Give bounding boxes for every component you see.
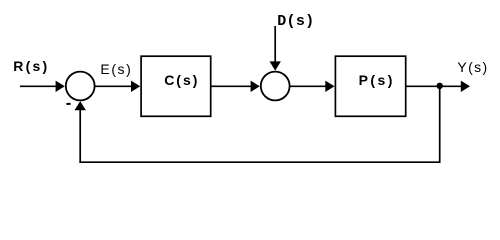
- wire feedback up to S1: [79, 110, 81, 164]
- svg-text:E(s): E(s): [100, 61, 130, 77]
- svg-text:D(s): D(s): [277, 13, 314, 30]
- block P(s) plant: [335, 56, 405, 116]
- wire D(s) down to S2: [274, 26, 276, 62]
- svg-text:C(s): C(s): [164, 72, 197, 88]
- arrowhead into P(s): [325, 81, 334, 92]
- block C(s) controller: [141, 56, 211, 116]
- wire S1 to C(s) block: [95, 85, 132, 87]
- wire feedback bottom horizontal: [79, 161, 440, 163]
- summing junction S1: [66, 72, 95, 101]
- wire input R(s) to summing junction: [20, 85, 57, 87]
- arrowhead up into S1: [75, 101, 86, 110]
- wire feedback down from junction dot: [439, 86, 441, 162]
- arrowhead output Y(s): [461, 81, 470, 92]
- arrowhead into S2: [251, 81, 260, 92]
- svg-text:Y(s): Y(s): [457, 59, 487, 75]
- arrowhead down into S2: [270, 61, 281, 70]
- wire P(s) to output Y(s): [406, 85, 461, 87]
- arrowhead into summing junction S1: [56, 81, 65, 92]
- minus sign at S1: [66, 103, 70, 105]
- summing junction S2: [261, 72, 290, 101]
- wire C(s) to summing junction S2: [211, 85, 252, 87]
- junction dot on output wire: [437, 83, 443, 89]
- svg-text:R(s): R(s): [13, 58, 47, 74]
- wire S2 to P(s) block: [290, 85, 327, 87]
- arrowhead into C(s): [131, 81, 140, 92]
